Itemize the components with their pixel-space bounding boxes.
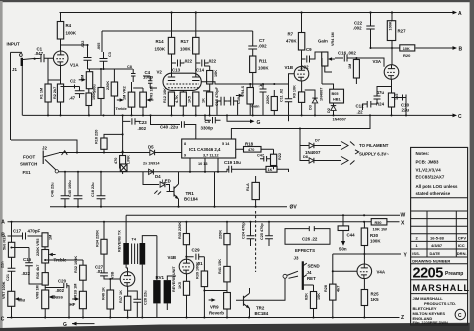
wire: V4A grid (333, 270, 357, 272)
diode D2 1N4007 (322, 58, 346, 122)
svg-text:D3: D3 (309, 105, 313, 110)
svg-text:100K: 100K (370, 239, 381, 244)
svg-text:V1A: V1A (70, 63, 79, 68)
valve V2 dual triode (157, 70, 202, 91)
wire: vertical to ground (214, 172, 216, 207)
resistor R17 100K (180, 13, 199, 74)
svg-text:REVERB UNIT: REVERB UNIT (172, 266, 176, 292)
svg-text:VR4-S: VR4-S (241, 85, 245, 97)
reverb transformer T1 (118, 215, 146, 264)
capacitor C27 .01 (95, 265, 120, 280)
svg-text:R7: R7 (288, 32, 294, 37)
svg-text:R50: R50 (375, 221, 382, 225)
svg-text:220K: 220K (266, 95, 270, 104)
svg-text:R25: R25 (371, 292, 380, 297)
relay contact box (120, 164, 127, 172)
diode D3 1N4007 (305, 88, 324, 116)
LED (143, 172, 171, 195)
valve V1B (285, 65, 309, 81)
capacitor C14 .022 (196, 59, 217, 73)
resistor R4 100K (57, 13, 77, 40)
svg-text:3,7 11,12: 3,7 11,12 (203, 154, 219, 158)
revision table (411, 211, 468, 257)
svg-text:R11: R11 (259, 59, 267, 64)
drawing number 2205 Preamp (411, 266, 468, 282)
svg-text:.47: .47 (259, 82, 266, 87)
svg-text:1k5: 1k5 (395, 94, 399, 100)
svg-text:R34 220K: R34 220K (96, 230, 100, 247)
wire: C rail feed (122, 115, 124, 152)
svg-text:47u: 47u (377, 90, 385, 95)
svg-text:C28 22u: C28 22u (144, 290, 148, 305)
svg-text:A: A (458, 11, 462, 17)
svg-text:C13: C13 (172, 68, 181, 73)
capacitor C9 .022 (300, 47, 322, 70)
svg-text:10K: 10K (317, 293, 321, 300)
resistor R40 1K (102, 278, 114, 318)
filament supply chevrons (341, 142, 355, 165)
svg-text:R37 1K: R37 1K (119, 290, 123, 303)
svg-text:100K: 100K (66, 31, 77, 36)
FOOT SWITCH FS1 labels (20, 155, 37, 176)
IC1 CA3046 (182, 139, 236, 166)
svg-text:FOOT: FOOT (23, 155, 36, 160)
svg-text:R30: R30 (370, 233, 379, 238)
svg-text:FS1: FS1 (23, 170, 32, 175)
resistor R5 220K (106, 69, 118, 115)
resistor R28 4k7 (324, 254, 341, 318)
svg-text:R28: R28 (324, 285, 328, 292)
svg-text:ØV: ØV (290, 205, 298, 211)
svg-text:C18 22u: C18 22u (91, 182, 95, 197)
svg-text:V1,V2,V3,V4: V1,V2,V3,V4 (416, 168, 442, 173)
svg-text:100p: 100p (143, 75, 153, 80)
wire: C rail drop to switching rail (231, 115, 370, 139)
dashed gang line (255, 211, 257, 272)
resistor R1 1M (40, 84, 52, 115)
capacitor C15b .022 (10, 246, 45, 284)
wire: transformer secondary to reverb unit (142, 236, 157, 243)
svg-text:J3: J3 (294, 256, 299, 261)
capacitor C4 100p (143, 70, 157, 88)
resistor R37 1K (119, 286, 131, 317)
svg-text:C21: C21 (6, 274, 10, 281)
electrolytic C45 100u (68, 172, 82, 207)
resistor R38 1K5 (178, 274, 190, 318)
capacitor C22 .002 (353, 13, 375, 50)
valve V1A (53, 51, 79, 68)
svg-text:470K: 470K (286, 39, 297, 44)
resistor R2 2k7 (53, 84, 64, 115)
electrolytic 47u (374, 87, 392, 105)
svg-text:C15 470pF: C15 470pF (215, 86, 219, 106)
svg-text:R20: R20 (403, 53, 411, 58)
svg-text:100K: 100K (180, 47, 191, 52)
svg-text:C20: C20 (58, 279, 67, 284)
svg-text:R39 100K: R39 100K (196, 262, 200, 279)
capacitor C29 .01 (185, 248, 204, 267)
svg-text:C15: C15 (23, 257, 32, 262)
svg-text:R14: R14 (156, 39, 165, 44)
svg-text:C: C (1, 317, 5, 323)
svg-text:TR2: TR2 (256, 306, 265, 311)
svg-text:TO FILAMENT: TO FILAMENT (359, 143, 389, 148)
svg-text:2x 1N914: 2x 1N914 (143, 162, 160, 166)
wire: J1 sleeve to switch (11, 140, 77, 153)
wire: transformer secondary bottom (141, 265, 143, 318)
svg-text:C29: C29 (192, 248, 201, 253)
potentiometer VR5 Treble (36, 238, 67, 272)
capacitor C5 .022 (vertical) (81, 41, 91, 69)
svg-text:BC184: BC184 (184, 197, 198, 202)
capacitor C12 .22 (356, 101, 378, 115)
svg-text:470: 470 (114, 158, 118, 164)
TO FILAMENT SUPPLY text (355, 143, 389, 157)
svg-text:VR7 100K: VR7 100K (2, 281, 6, 299)
svg-text:VR8 1M: VR8 1M (36, 285, 40, 299)
diode D5 1N914 (143, 145, 182, 166)
bus Y (333, 253, 408, 259)
svg-text:470: 470 (248, 148, 254, 152)
svg-text:82K: 82K (305, 293, 309, 300)
svg-text:10 13: 10 13 (198, 162, 208, 166)
svg-text:220K: 220K (219, 230, 223, 239)
drawing number header (411, 258, 468, 264)
wire: V1B grid (289, 74, 295, 84)
svg-text:R32 100K: R32 100K (74, 256, 78, 273)
scan band right (470, 0, 474, 331)
svg-text:C47: C47 (257, 154, 264, 158)
copyright circle C (455, 309, 465, 319)
svg-text:J2: J2 (42, 146, 47, 151)
svg-text:HF: HF (70, 302, 76, 307)
transistor TR1 BC184 (167, 172, 199, 207)
svg-text:C44: C44 (347, 233, 356, 238)
electrolytic C10 22u (392, 95, 410, 116)
svg-text:5 14: 5 14 (222, 142, 230, 146)
svg-text:.002: .002 (138, 126, 147, 131)
resistor R30b 220K (219, 222, 231, 267)
svg-text:16-5-88: 16-5-88 (430, 236, 445, 241)
svg-text:VR1B 1M: VR1B 1M (74, 284, 78, 300)
svg-text:C26 .22: C26 .22 (302, 237, 318, 242)
svg-text:8: 8 (184, 142, 186, 146)
resistor R31 1M (42, 233, 53, 250)
svg-text:C24 470p: C24 470p (242, 222, 246, 239)
jack J3 SEND (294, 256, 320, 290)
reverb unit RV1 (153, 236, 176, 318)
svg-text:R18 220: R18 220 (95, 130, 99, 144)
svg-text:MARSHALL: MARSHALL (413, 283, 470, 293)
svg-text:W: W (401, 212, 406, 218)
svg-text:C8: C8 (127, 65, 132, 69)
jack J1 (11, 52, 34, 140)
svg-text:100K: 100K (258, 66, 269, 71)
resistor R27 100K (387, 13, 406, 65)
svg-text:50n: 50n (339, 247, 347, 252)
svg-text:22u: 22u (402, 108, 410, 113)
capacitor C30 (228, 97, 241, 116)
svg-text:Gain: Gain (251, 105, 260, 109)
resistor R33 5k6 (3, 222, 15, 263)
svg-text:2205: 2205 (413, 266, 444, 282)
svg-text:C40 .22u: C40 .22u (160, 125, 178, 130)
capacitor C24 470p (242, 222, 255, 246)
capacitor C40 .22u (149, 114, 195, 139)
svg-text:ECC83/12AX7: ECC83/12AX7 (416, 175, 445, 180)
svg-text:100K: 100K (389, 21, 393, 30)
jack J2 (42, 146, 59, 174)
svg-text:B05: B05 (332, 92, 339, 96)
resistor 470 (marked link) (114, 153, 131, 175)
svg-text:V2: V2 (157, 70, 163, 75)
valve V4A (357, 264, 386, 279)
capacitor C8 1n (127, 65, 136, 82)
resistor R8 220K (266, 90, 277, 115)
resistor R9 1M (V1B cathode) (293, 81, 305, 115)
svg-text:Z: Z (401, 315, 404, 321)
svg-text:.022: .022 (22, 271, 31, 276)
svg-text:.47: .47 (69, 96, 76, 101)
resistor R23 (266, 166, 289, 172)
svg-text:C5: C5 (205, 119, 211, 124)
svg-text:R9 10K: R9 10K (293, 85, 297, 98)
potentiometer VR1B (70, 284, 87, 318)
svg-text:A: A (1, 220, 5, 226)
decoupling rail (102, 31, 253, 52)
svg-text:VR4 1M: VR4 1M (331, 32, 335, 46)
potentiometer VR9 Reverb (209, 293, 231, 318)
wire: V3B plate to transformer (126, 265, 127, 272)
svg-text:LINK: LINK (127, 155, 131, 164)
svg-text:D5: D5 (148, 145, 154, 150)
svg-text:BC184: BC184 (255, 311, 269, 316)
bottom rail C-Z (1, 315, 404, 323)
company address (413, 296, 457, 325)
bus B2 (1, 233, 42, 239)
svg-text:22n: 22n (1, 261, 5, 268)
svg-text:10K 1W: 10K 1W (373, 227, 388, 232)
svg-text:C30: C30 (237, 97, 241, 104)
svg-text:1M: 1M (80, 75, 84, 80)
svg-text:1M: 1M (49, 235, 53, 240)
svg-text:Bass: Bass (53, 295, 64, 300)
capacitor C15 470pF (215, 86, 228, 115)
svg-text:DRN.: DRN. (457, 251, 467, 256)
svg-text:C16 .002: C16 .002 (338, 51, 356, 56)
capacitor C5 3300p (201, 114, 221, 130)
bus B (371, 46, 463, 53)
diode D4 (149, 169, 162, 179)
svg-text:ICC: ICC (458, 243, 465, 248)
resistor R32 100K (44, 256, 86, 292)
resistor R21 1M (grid leak V3A) (348, 57, 360, 84)
svg-text:220K: 220K (106, 81, 110, 90)
diodes D7 D8 to filament supply (299, 127, 341, 163)
capacitor C11 .02 (280, 84, 293, 121)
svg-text:R36 4k7: R36 4k7 (36, 265, 40, 279)
wire: J1 tip to C1 (34, 58, 40, 60)
svg-text:.022: .022 (208, 59, 217, 64)
svg-text:REVERB TX: REVERB TX (118, 230, 122, 252)
potentiometer VR4b (second gang) (236, 84, 260, 115)
svg-text:4k7: 4k7 (337, 286, 341, 292)
resistor R20 18K 1W (in bus B) (400, 45, 415, 58)
electrolytic C18 22u (91, 172, 105, 207)
IC1 pin stubs (190, 158, 218, 172)
potentiometer VR8 Bass (36, 285, 64, 317)
svg-text:.01: .01 (97, 269, 104, 274)
svg-text:1M VR2: 1M VR2 (122, 86, 126, 100)
svg-text:LED: LED (162, 178, 171, 183)
svg-text:5k6 R33: 5k6 R33 (3, 236, 7, 250)
svg-text:V4B: V4B (168, 255, 177, 260)
transistor TR2 BC184 (236, 288, 269, 318)
wire: plate node to caps (61, 45, 133, 69)
svg-text:D7: D7 (315, 139, 320, 143)
switch contact mark (62, 151, 68, 155)
svg-text:C14: C14 (196, 68, 205, 73)
svg-text:HB1: HB1 (333, 98, 341, 102)
svg-text:.002: .002 (258, 44, 267, 49)
resistor R41 15K (218, 259, 230, 293)
svg-text:Reverb: Reverb (209, 311, 224, 316)
svg-text:R27: R27 (398, 29, 407, 34)
valve V3B (111, 271, 135, 286)
valve V4B (168, 255, 194, 274)
off-page arrow G bottom (63, 322, 95, 329)
capacitor C2 .47 (61, 79, 85, 101)
MARSHALL logo (411, 283, 470, 294)
svg-text:R12 10K: R12 10K (163, 88, 167, 103)
svg-text:R2 2k7: R2 2k7 (53, 87, 57, 99)
svg-text:D8: D8 (303, 155, 308, 159)
svg-text:4/3/87: 4/3/87 (431, 243, 443, 248)
svg-text:C3: C3 (108, 52, 112, 57)
potentiometer VR3 Middle (133, 86, 153, 115)
relay coil RLA (246, 176, 259, 207)
svg-text:4.7K: 4.7K (175, 95, 179, 103)
svg-text:File: 2205PRE.DWN: File: 2205PRE.DWN (413, 321, 448, 325)
svg-text:Treble: Treble (116, 107, 127, 111)
svg-text:R41 15K: R41 15K (218, 259, 222, 274)
title block frame (411, 147, 468, 325)
svg-text:C23: C23 (139, 120, 148, 125)
resistor R34 220K (96, 222, 108, 265)
svg-text:C45 100u: C45 100u (68, 180, 72, 197)
svg-text:C19 10u: C19 10u (224, 160, 241, 165)
resistor R25 1K5 (361, 279, 379, 318)
svg-text:R18: R18 (245, 142, 254, 147)
svg-text:J1: J1 (12, 67, 17, 72)
resistor R15 4k7 (175, 91, 186, 116)
svg-text:TR1: TR1 (186, 191, 195, 196)
svg-text:C7: C7 (259, 38, 265, 43)
svg-text:Notes:: Notes: (416, 151, 430, 156)
capacitor .047 (259, 82, 267, 115)
svg-text:150K: 150K (155, 47, 166, 52)
svg-text:R17: R17 (181, 39, 190, 44)
electrolytic C28 22u (128, 290, 148, 318)
valve V3A (373, 59, 399, 79)
svg-text:RET: RET (307, 276, 316, 281)
potentiometer VR7 (2, 281, 26, 317)
resistor R36 4k7 (36, 265, 48, 290)
svg-text:R24: R24 (376, 102, 385, 107)
resistor R18 220 (95, 130, 123, 153)
potentiometer VR1 1M (gain) (79, 69, 93, 89)
svg-text:10K: 10K (403, 47, 410, 51)
capacitor C16 .002 (335, 51, 384, 67)
svg-text:1K5: 1K5 (371, 297, 380, 302)
capacitor C21 22n (1, 261, 16, 291)
svg-text:1K: 1K (268, 168, 273, 172)
svg-text:G: G (63, 322, 67, 328)
resistor R16 1K5 (188, 92, 199, 115)
capacitor C7 .002 (248, 31, 267, 56)
electrolytic C46 22u (51, 172, 70, 207)
resistor R18b 10K (205, 66, 218, 92)
effects loop box with C26 .22 (285, 226, 330, 244)
resistor R12 10K (163, 88, 175, 116)
ground rail 0V (50, 205, 297, 211)
capacitor C23 .002 (123, 118, 148, 131)
svg-text:10K: 10K (214, 70, 218, 77)
svg-text:SWITCH: SWITCH (20, 162, 37, 167)
svg-text:R35 220K: R35 220K (178, 222, 182, 239)
resistor R18 470 (236, 142, 274, 153)
diode block D05 (330, 89, 344, 103)
wire: reverb pot link (204, 290, 226, 292)
capacitor C47 (257, 154, 270, 162)
svg-text:V3B: V3B (111, 271, 115, 279)
svg-text:VR9: VR9 (210, 305, 219, 310)
jack switch contacts (244, 271, 299, 300)
svg-text:PCB: JM83: PCB: JM83 (416, 160, 439, 165)
wire: footswitch row (59, 171, 228, 173)
svg-text:EFFECTS: EFFECTS (295, 248, 315, 253)
capacitor C44 50n (338, 215, 355, 251)
svg-text:3300p: 3300p (201, 125, 214, 130)
wire: V1A plate to R4 (60, 39, 62, 51)
svg-text:1K5: 1K5 (178, 282, 182, 289)
svg-text:R1 1M: R1 1M (40, 88, 44, 99)
svg-text:G: G (257, 120, 261, 126)
svg-text:ISS.: ISS. (412, 251, 420, 256)
svg-text:J4: J4 (307, 270, 312, 275)
svg-text:C46 22u: C46 22u (51, 182, 55, 197)
capacitor C17 470pF (13, 229, 41, 240)
svg-text:220K VR5: 220K VR5 (36, 238, 40, 256)
bus W (126, 212, 405, 218)
svg-text:.002: .002 (353, 26, 362, 31)
capacitor C20 .002 (45, 279, 69, 318)
resistor R22 (271, 149, 283, 169)
resistor R3 100K below C2 (86, 89, 96, 116)
svg-text:R4: R4 (66, 23, 72, 28)
svg-text:B: B (459, 47, 463, 53)
potentiometer VR4 1M Gain (318, 32, 335, 72)
scan band top (0, 0, 474, 2)
svg-text:SUPPLY 6.3V~: SUPPLY 6.3V~ (359, 152, 389, 157)
capacitor C13 .022 (172, 59, 193, 73)
resistor R30 100K (361, 222, 381, 264)
resistor R14 150K (155, 13, 175, 74)
svg-text:470pF: 470pF (28, 229, 41, 234)
wire: sub rail to G (227, 115, 261, 126)
svg-text:.022: .022 (81, 41, 85, 48)
resistor R24 1k5 (376, 93, 399, 115)
